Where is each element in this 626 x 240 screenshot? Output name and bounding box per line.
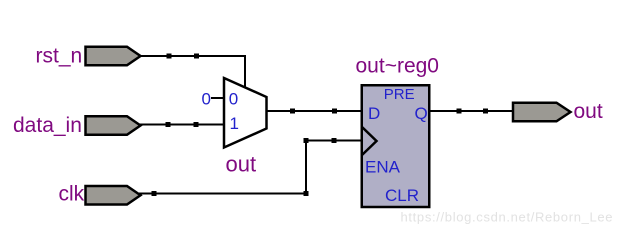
input pin rst_n (86, 47, 141, 66)
input pin clk (86, 186, 141, 205)
svg-text:out: out (226, 152, 257, 177)
output pin out (513, 103, 571, 122)
node clk dot 1 (152, 191, 157, 196)
svg-text:D: D (368, 104, 380, 123)
node clk dot near register (332, 138, 337, 143)
node rst_n dot 2 (194, 54, 199, 59)
wire data_in to mux input 1 (139, 124, 225, 126)
node mux-out dot 2 (332, 109, 337, 114)
wire register Q to out pin (429, 110, 514, 112)
svg-text:PRE: PRE (384, 86, 415, 103)
svg-text:rst_n: rst_n (36, 45, 83, 68)
svg-text:out: out (574, 100, 603, 123)
mux out~reg0-mux (224, 78, 267, 148)
svg-text:CLR: CLR (385, 186, 419, 205)
svg-text:https://blog.csdn.net/Reborn_L: https://blog.csdn.net/Reborn_Lee (401, 210, 614, 225)
node clk riser top dot (304, 138, 309, 143)
register clock chevron (362, 127, 377, 155)
input pin data_in (86, 116, 141, 135)
wire clk vertical riser (305, 140, 307, 195)
svg-text:Q: Q (415, 104, 428, 123)
node clk corner dot (304, 191, 309, 196)
node Q dot 1 (457, 109, 462, 114)
wire rst_n vertical drop to mux select (244, 55, 246, 89)
wire clk horizontal (139, 193, 307, 195)
node data_in dot 2 (194, 122, 199, 127)
svg-text:out~reg0: out~reg0 (356, 55, 440, 78)
svg-text:0: 0 (229, 90, 238, 109)
node rst_n dot 1 (167, 54, 172, 59)
register out~reg0 body (362, 85, 430, 207)
svg-text:data_in: data_in (13, 114, 82, 137)
wire mux output to register D (265, 110, 363, 112)
node mux-out dot 1 (290, 109, 295, 114)
wire constant 0 stub to mux input 0 (211, 97, 225, 99)
node Q dot 2 (483, 109, 488, 114)
svg-text:1: 1 (230, 114, 239, 133)
wire rst_n horizontal (139, 55, 246, 57)
node data_in dot 1 (166, 122, 171, 127)
svg-text:ENA: ENA (365, 158, 401, 177)
svg-text:0: 0 (202, 90, 211, 109)
svg-text:clk: clk (59, 183, 85, 206)
wire clk into register clock pin (305, 140, 363, 142)
